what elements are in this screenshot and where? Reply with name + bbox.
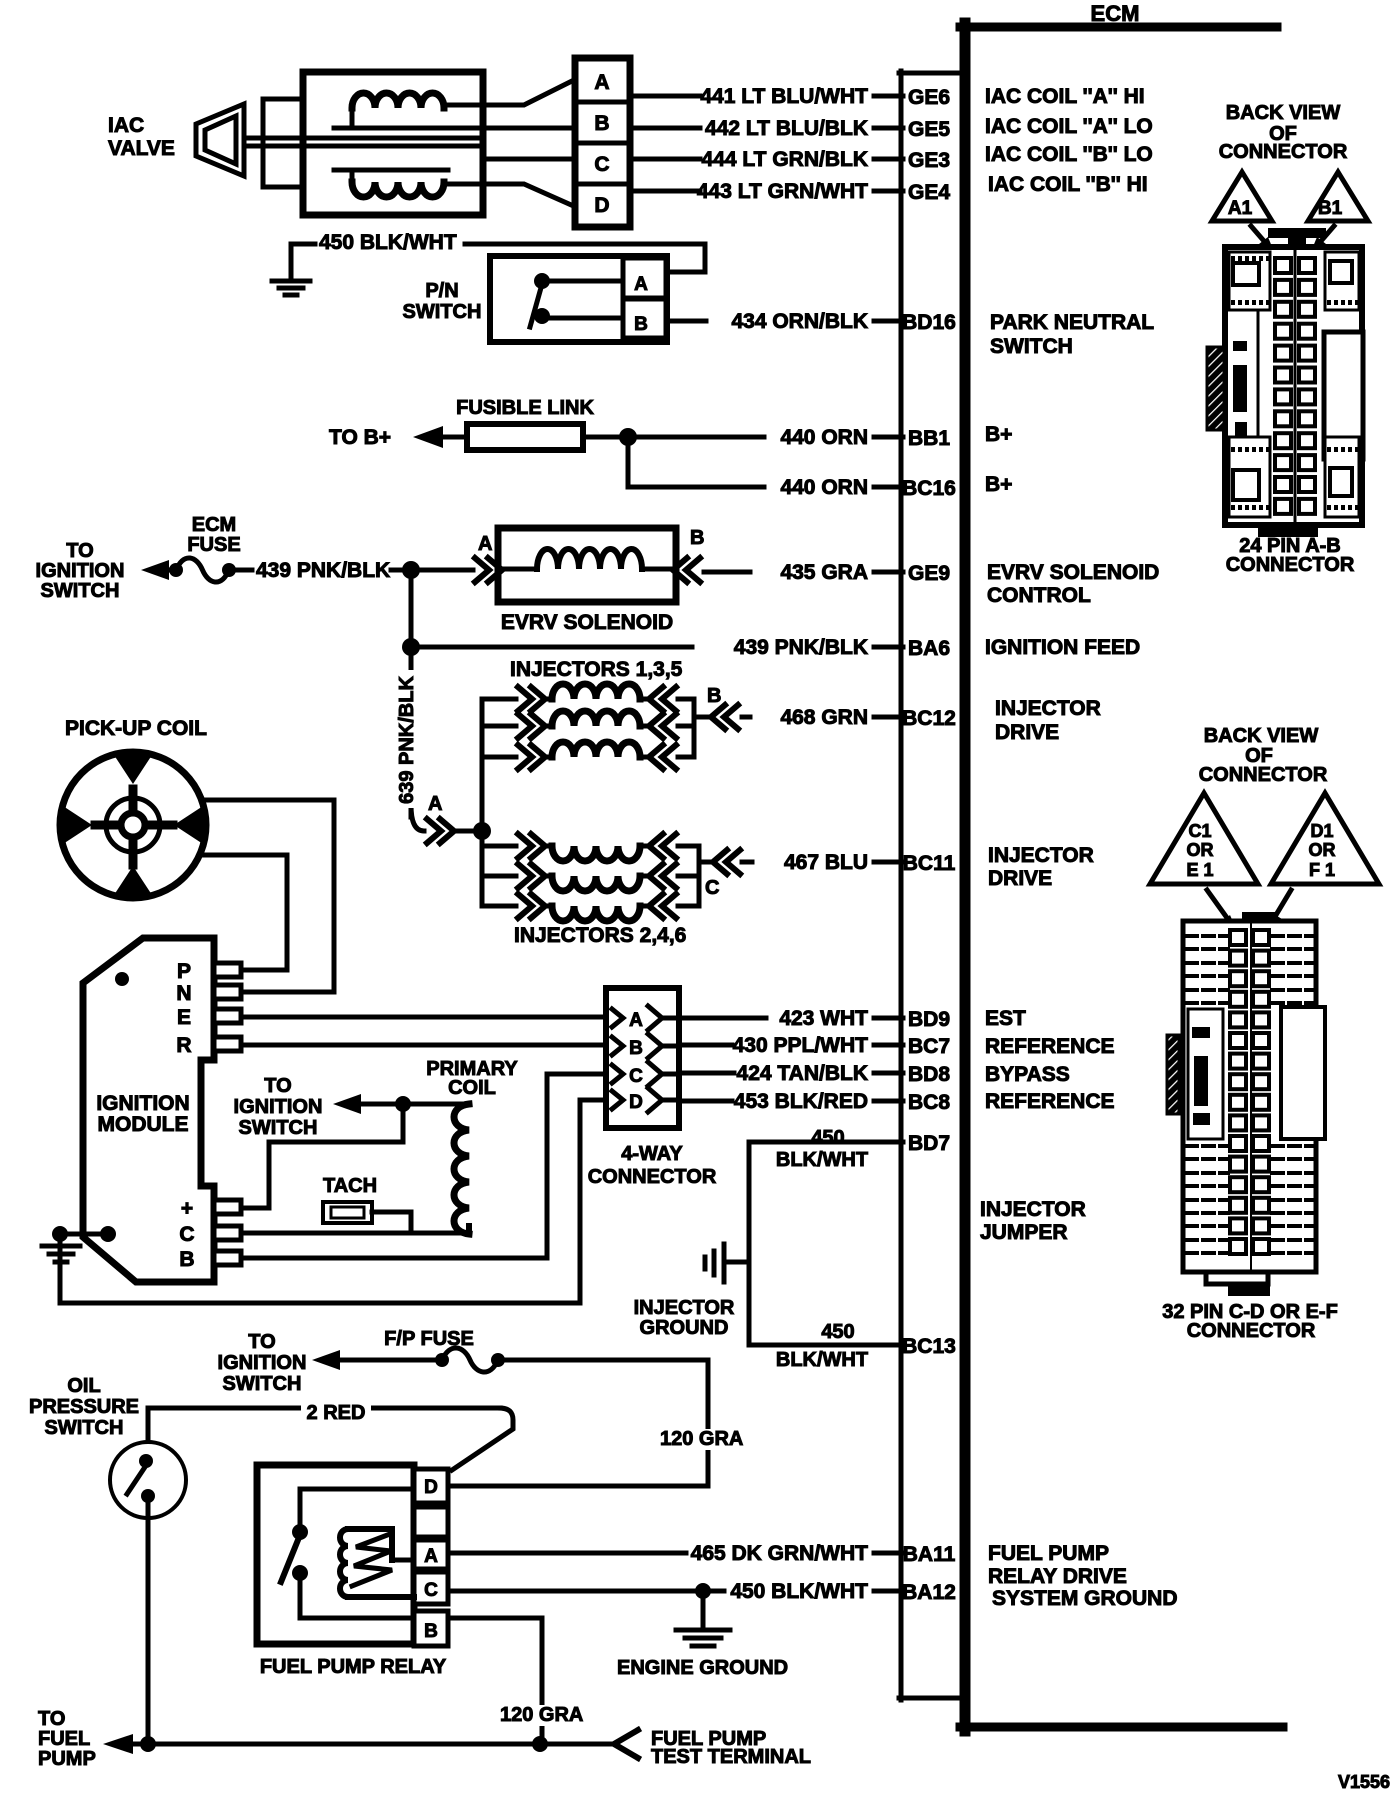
svg-text:FUEL PUMP: FUEL PUMP [988,1542,1109,1565]
svg-text:IGNITION FEED: IGNITION FEED [985,636,1140,659]
svg-text:C: C [594,153,609,176]
svg-text:A: A [424,1546,438,1567]
svg-text:TACH: TACH [323,1175,377,1197]
svg-text:B: B [690,527,704,549]
svg-text:INJECTOR: INJECTOR [634,1297,735,1319]
svg-text:IAC COIL ''A'' HI: IAC COIL ''A'' HI [985,85,1145,108]
svg-text:CONNECTOR: CONNECTOR [1187,1320,1316,1342]
svg-text:BA12: BA12 [902,1581,956,1604]
svg-text:434 ORN/BLK: 434 ORN/BLK [731,310,868,333]
svg-text:RELAY DRIVE: RELAY DRIVE [988,1565,1127,1588]
svg-text:BC13: BC13 [902,1335,956,1358]
svg-text:4-WAY: 4-WAY [621,1143,683,1165]
svg-text:PARK NEUTRAL: PARK NEUTRAL [990,311,1154,334]
svg-text:BLK/WHT: BLK/WHT [776,1349,868,1371]
svg-text:CONNECTOR: CONNECTOR [1226,554,1355,576]
svg-text:442 LT BLU/BLK: 442 LT BLU/BLK [705,117,868,140]
svg-text:FUSE: FUSE [187,534,240,556]
svg-text:R: R [176,1034,191,1057]
svg-text:INJECTOR: INJECTOR [995,697,1101,720]
svg-text:BYPASS: BYPASS [985,1063,1070,1086]
svg-text:PICK-UP COIL: PICK-UP COIL [65,717,207,740]
svg-text:BD16: BD16 [902,311,956,334]
svg-text:BD7: BD7 [908,1132,950,1155]
svg-text:INJECTOR: INJECTOR [980,1198,1086,1221]
svg-text:OR: OR [1187,840,1214,860]
svg-text:BC16: BC16 [902,477,956,500]
svg-text:BACK VIEW: BACK VIEW [1204,725,1319,747]
svg-text:BC8: BC8 [908,1091,950,1114]
svg-text:423 WHT: 423 WHT [779,1007,868,1030]
svg-text:450 BLK/WHT: 450 BLK/WHT [730,1580,868,1603]
svg-text:450 BLK/WHT: 450 BLK/WHT [319,231,457,254]
svg-text:467 BLU: 467 BLU [784,851,868,874]
svg-text:SWITCH: SWITCH [239,1117,318,1139]
svg-text:BB1: BB1 [908,427,950,450]
svg-text:SWITCH: SWITCH [990,335,1073,358]
svg-text:E 1: E 1 [1186,860,1213,880]
svg-text:444 LT GRN/BLK: 444 LT GRN/BLK [702,148,868,171]
svg-text:439 PNK/BLK: 439 PNK/BLK [256,559,390,582]
svg-text:A1: A1 [1228,198,1253,219]
svg-text:450: 450 [811,1127,844,1149]
svg-text:FUSIBLE LINK: FUSIBLE LINK [456,397,594,419]
svg-text:EVRV SOLENOID: EVRV SOLENOID [501,611,673,634]
svg-text:639 PNK/BLK: 639 PNK/BLK [396,676,418,804]
svg-text:C: C [629,1066,643,1087]
svg-text:BLK/WHT: BLK/WHT [776,1149,868,1171]
svg-text:CONNECTOR: CONNECTOR [588,1166,717,1188]
svg-text:REFERENCE: REFERENCE [985,1090,1115,1113]
svg-text:D: D [629,1092,643,1113]
svg-text:B: B [707,685,721,707]
svg-text:FUEL PUMP RELAY: FUEL PUMP RELAY [260,1656,447,1678]
svg-text:+: + [181,1197,193,1220]
svg-text:A: A [634,274,648,295]
svg-text:IGNITION: IGNITION [218,1352,307,1374]
svg-text:B+: B+ [985,473,1012,496]
svg-text:GE4: GE4 [908,181,950,204]
svg-text:468 GRN: 468 GRN [780,706,868,729]
svg-text:INJECTOR: INJECTOR [988,844,1094,867]
svg-text:MODULE: MODULE [98,1113,189,1136]
svg-text:IAC: IAC [108,114,144,137]
svg-text:IAC COIL ''B'' HI: IAC COIL ''B'' HI [988,173,1148,196]
svg-text:TO B+: TO B+ [329,426,391,449]
svg-text:CONTROL: CONTROL [987,584,1091,607]
svg-text:TEST TERMINAL: TEST TERMINAL [651,1746,811,1768]
svg-text:TO: TO [66,540,93,562]
svg-text:120 GRA: 120 GRA [660,1428,743,1450]
svg-text:GE5: GE5 [908,118,950,141]
svg-text:GE6: GE6 [908,86,950,109]
svg-text:P: P [177,960,191,983]
svg-text:440 ORN: 440 ORN [780,426,868,449]
svg-text:V1556: V1556 [1338,1772,1390,1792]
svg-text:BC12: BC12 [902,707,956,730]
svg-text:120 GRA: 120 GRA [500,1704,583,1726]
svg-text:EVRV SOLENOID: EVRV SOLENOID [987,561,1159,584]
svg-text:ECM: ECM [192,514,236,536]
svg-text:TO: TO [38,1708,65,1730]
svg-text:GROUND: GROUND [640,1317,729,1339]
svg-text:DRIVE: DRIVE [995,721,1059,744]
svg-text:453 BLK/RED: 453 BLK/RED [734,1090,868,1113]
svg-text:TO: TO [264,1075,291,1097]
svg-text:E: E [177,1006,191,1029]
svg-text:B: B [179,1248,194,1271]
svg-text:IGNITION: IGNITION [96,1092,189,1115]
svg-text:ECM: ECM [1091,1,1140,26]
svg-text:B: B [424,1621,438,1642]
svg-text:A: A [594,71,609,94]
svg-text:A: A [428,793,442,815]
svg-text:BA11: BA11 [903,1543,956,1566]
svg-text:443 LT GRN/WHT: 443 LT GRN/WHT [697,180,868,203]
svg-text:IGNITION: IGNITION [36,560,125,582]
svg-text:424 TAN/BLK: 424 TAN/BLK [737,1062,868,1085]
svg-text:A: A [629,1010,643,1031]
svg-text:P/N: P/N [425,280,458,302]
svg-text:COIL: COIL [448,1077,496,1099]
svg-text:B: B [634,314,648,335]
svg-text:CONNECTOR: CONNECTOR [1199,764,1328,786]
svg-text:C: C [179,1223,194,1246]
svg-text:PRESSURE: PRESSURE [29,1396,139,1418]
svg-text:PUMP: PUMP [38,1748,96,1770]
svg-text:OIL: OIL [67,1375,100,1397]
svg-text:INJECTORS 1,3,5: INJECTORS 1,3,5 [510,658,683,681]
svg-text:SYSTEM GROUND: SYSTEM GROUND [992,1587,1178,1610]
svg-text:465 DK GRN/WHT: 465 DK GRN/WHT [691,1542,869,1565]
svg-text:BACK VIEW: BACK VIEW [1226,102,1341,124]
svg-text:OR: OR [1309,840,1336,860]
svg-text:F 1: F 1 [1309,860,1335,880]
svg-text:440 ORN: 440 ORN [780,476,868,499]
svg-text:SWITCH: SWITCH [45,1417,124,1439]
svg-text:SWITCH: SWITCH [41,580,120,602]
svg-text:D: D [594,194,609,217]
svg-text:EST: EST [985,1007,1026,1030]
svg-text:IAC COIL ''A'' LO: IAC COIL ''A'' LO [985,115,1153,138]
svg-text:DRIVE: DRIVE [988,867,1052,890]
svg-text:INJECTORS 2,4,6: INJECTORS 2,4,6 [514,924,686,947]
svg-text:VALVE: VALVE [108,137,175,160]
svg-text:D: D [424,1477,438,1498]
svg-text:D1: D1 [1310,821,1333,841]
svg-text:GE3: GE3 [908,149,950,172]
svg-text:BD9: BD9 [908,1008,950,1031]
svg-text:N: N [176,982,191,1005]
svg-text:B1: B1 [1318,198,1343,219]
svg-text:BD8: BD8 [908,1063,950,1086]
svg-text:BC7: BC7 [908,1035,950,1058]
svg-text:441 LT BLU/WHT: 441 LT BLU/WHT [700,85,868,108]
svg-text:B: B [629,1038,643,1059]
svg-text:GE9: GE9 [908,562,950,585]
svg-text:A: A [478,533,492,555]
svg-text:C: C [424,1580,438,1601]
svg-text:C1: C1 [1188,821,1211,841]
svg-text:450: 450 [821,1321,854,1343]
svg-text:TO: TO [248,1331,275,1353]
svg-text:FUEL: FUEL [38,1728,90,1750]
svg-text:430 PPL/WHT: 430 PPL/WHT [733,1034,869,1057]
svg-text:SWITCH: SWITCH [223,1373,302,1395]
svg-text:SWITCH: SWITCH [403,301,482,323]
svg-text:C: C [705,877,719,899]
svg-text:BA6: BA6 [908,637,950,660]
svg-text:BC11: BC11 [903,852,956,875]
svg-text:2 RED: 2 RED [307,1402,366,1424]
svg-text:IGNITION: IGNITION [234,1096,323,1118]
svg-text:B+: B+ [985,423,1012,446]
svg-text:B: B [594,112,609,135]
svg-text:JUMPER: JUMPER [980,1221,1068,1244]
svg-text:ENGINE GROUND: ENGINE GROUND [617,1657,788,1679]
svg-text:435 GRA: 435 GRA [780,561,868,584]
svg-text:REFERENCE: REFERENCE [985,1035,1115,1058]
svg-text:IAC COIL ''B'' LO: IAC COIL ''B'' LO [985,143,1153,166]
svg-text:439 PNK/BLK: 439 PNK/BLK [734,636,868,659]
svg-text:CONNECTOR: CONNECTOR [1219,141,1348,163]
